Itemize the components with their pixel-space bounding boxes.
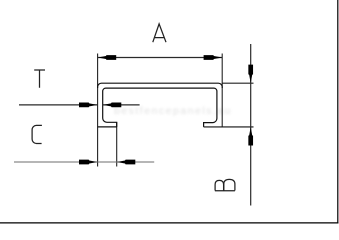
- arrow A left: [98, 55, 117, 60]
- label T: [34, 70, 45, 88]
- dimension line B: [250, 44, 252, 206]
- arrow B top (points down): [248, 65, 253, 84]
- profile bottom edge left foot: [98, 126, 117, 128]
- arrow T right (points left at inner face): [103, 103, 122, 108]
- profile outer top edge with corner radii: [98, 83, 223, 88]
- arrow C right (points left): [117, 160, 136, 165]
- arrow T left (points right at outer face): [79, 103, 98, 108]
- border frame bottom: [0, 222, 338, 224]
- arrow B bottom (points up): [248, 127, 253, 146]
- arrow A right: [204, 55, 223, 60]
- arrow C left (points right): [79, 160, 98, 165]
- wire: left extension line (A ext / outer face / C ext): [97, 54, 99, 167]
- watermark ghost text: [114, 105, 232, 117]
- label B (rotated 90 CCW): [215, 179, 235, 190]
- dimension line T right tail: [103, 104, 140, 106]
- dimension line T left part: [19, 104, 98, 106]
- B top extension line: [222, 82, 253, 84]
- label C: [32, 125, 42, 143]
- wire: left foot tip extension line (C ext): [116, 122, 118, 166]
- dimension line C: [14, 161, 154, 163]
- dimension line A: [98, 57, 223, 59]
- label A: [153, 24, 166, 42]
- profile inner contour: [103, 88, 217, 127]
- profile bottom edge right foot + B bottom extension: [204, 126, 254, 128]
- svg-text:bestfencepanels.au: bestfencepanels.au: [114, 105, 232, 117]
- wire: right extension line (A ext / outer face): [221, 54, 223, 127]
- border frame right: [337, 0, 339, 224]
